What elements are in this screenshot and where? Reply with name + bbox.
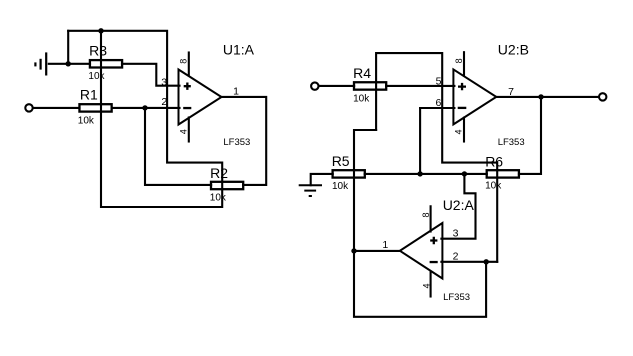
- svg-text:10k: 10k: [485, 180, 502, 191]
- svg-text:U2:B: U2:B: [498, 41, 529, 57]
- svg-text:R6: R6: [485, 153, 503, 169]
- svg-text:3: 3: [161, 77, 167, 89]
- svg-text:1: 1: [233, 85, 239, 97]
- svg-text:8: 8: [179, 59, 189, 64]
- svg-text:10k: 10k: [210, 192, 227, 203]
- svg-text:R4: R4: [353, 65, 371, 81]
- svg-text:4: 4: [179, 129, 189, 134]
- svg-text:LF353: LF353: [498, 137, 525, 148]
- svg-text:LF353: LF353: [443, 292, 470, 303]
- svg-text:R1: R1: [80, 87, 98, 103]
- svg-text:R2: R2: [210, 165, 228, 181]
- svg-text:R3: R3: [89, 43, 107, 59]
- svg-text:U2:A: U2:A: [443, 197, 475, 213]
- svg-text:2: 2: [453, 251, 459, 263]
- svg-text:7: 7: [508, 86, 514, 98]
- svg-text:5: 5: [436, 75, 442, 87]
- svg-text:10k: 10k: [78, 115, 95, 126]
- svg-text:4: 4: [422, 283, 432, 288]
- svg-text:1: 1: [382, 239, 388, 251]
- svg-text:10k: 10k: [332, 181, 349, 192]
- svg-text:LF353: LF353: [223, 137, 250, 148]
- svg-text:R5: R5: [332, 153, 350, 169]
- svg-text:8: 8: [454, 58, 464, 63]
- svg-text:3: 3: [453, 228, 459, 240]
- svg-text:4: 4: [454, 129, 464, 134]
- svg-text:8: 8: [421, 212, 431, 217]
- svg-text:U1:A: U1:A: [223, 42, 255, 58]
- svg-text:10k: 10k: [353, 93, 370, 104]
- svg-text:6: 6: [435, 97, 441, 109]
- svg-text:2: 2: [161, 96, 167, 108]
- svg-text:10k: 10k: [88, 71, 105, 82]
